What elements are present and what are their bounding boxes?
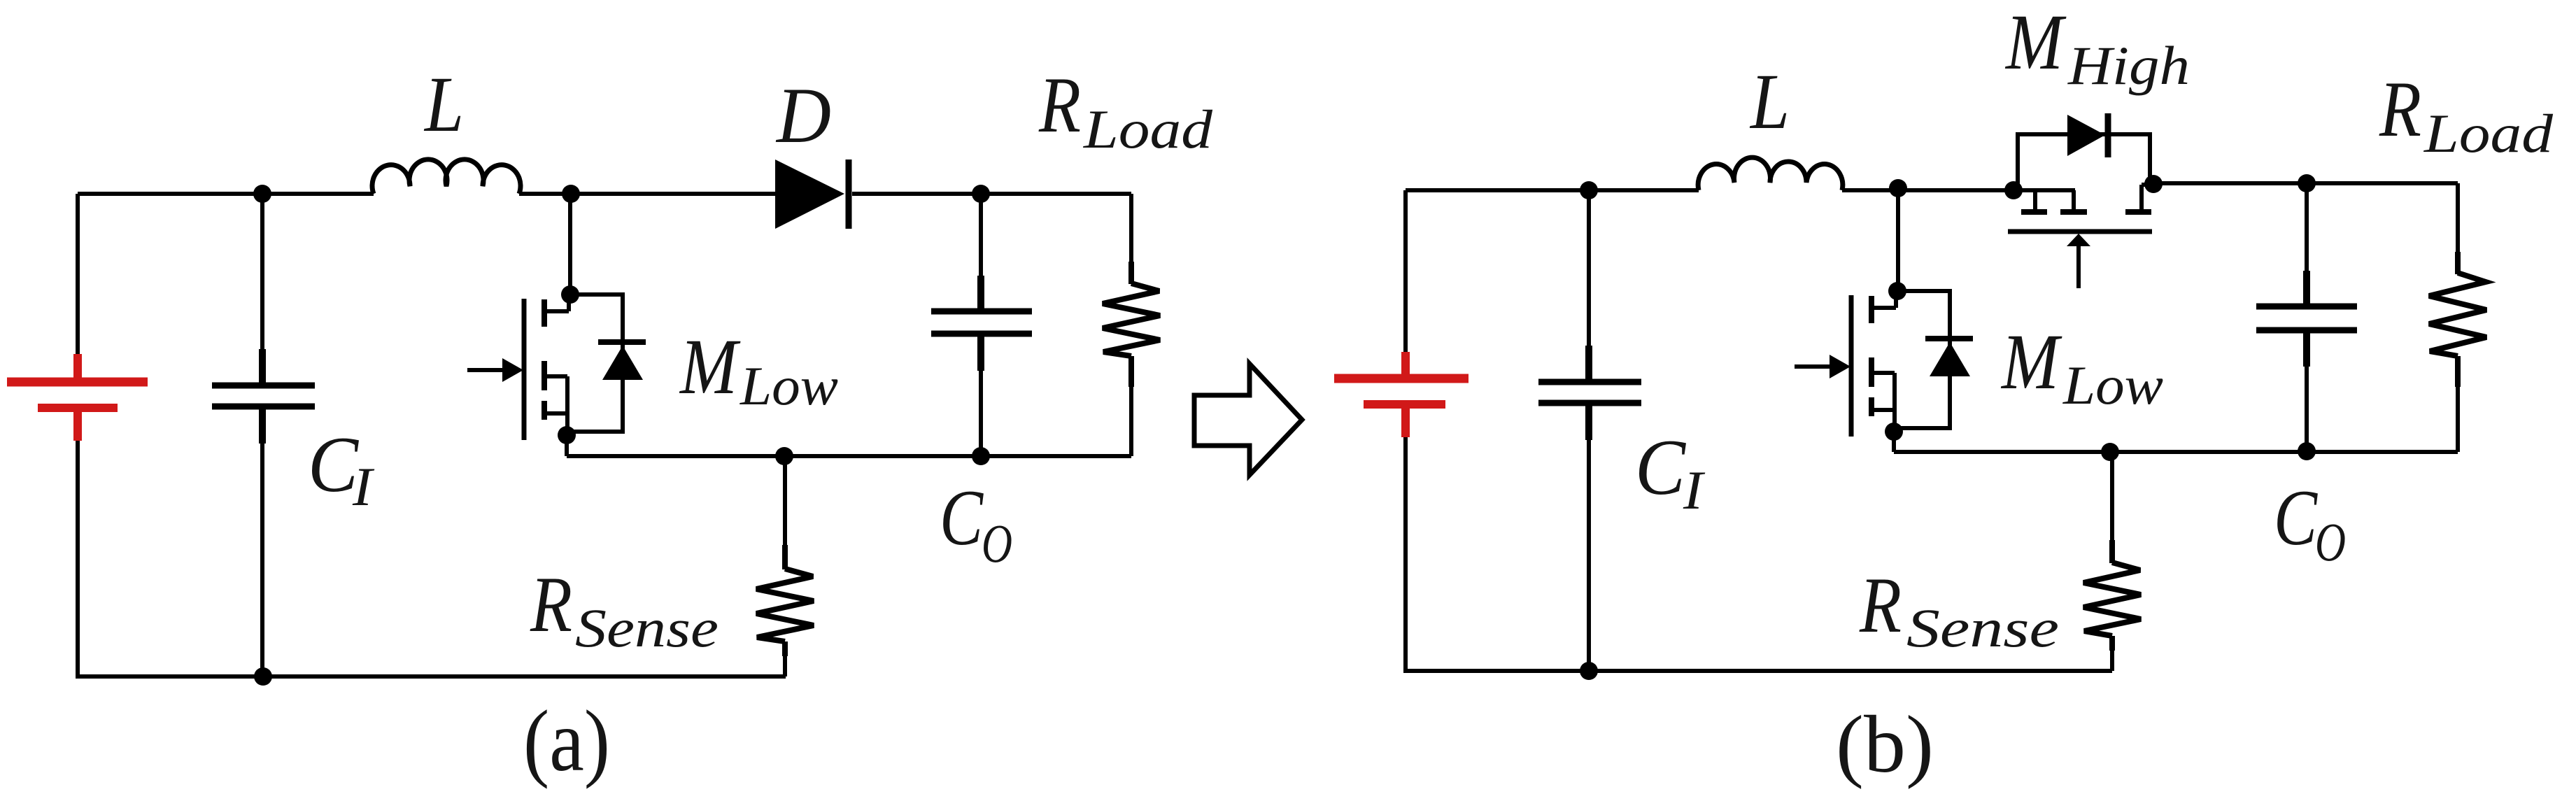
node switch junction (b)	[1889, 179, 1907, 197]
wire bottom rail (b)	[1406, 669, 2112, 673]
svg-text:Low: Low	[739, 355, 838, 416]
inductor L (b)	[1698, 157, 1843, 190]
label L (b)	[1749, 58, 1790, 146]
transistor M_High (b)	[2004, 113, 2163, 288]
svg-text:M: M	[2000, 318, 2062, 406]
transistor M_Low (a)	[467, 285, 646, 456]
wire battery to bottom (b)	[1403, 437, 1408, 673]
resistor R_Load (a)	[1103, 194, 1160, 456]
label M_Low (b)	[2000, 318, 2163, 416]
wire top rail (a)	[78, 192, 1131, 196]
arrow between circuits	[1194, 364, 1302, 475]
node C_I top (b)	[1580, 181, 1598, 199]
label C_O (b)	[2274, 474, 2346, 572]
svg-text:Sense: Sense	[575, 597, 719, 658]
svg-text:C: C	[940, 474, 984, 562]
wire left rail (a)	[76, 194, 80, 354]
node C_I bottom (b)	[1580, 662, 1598, 680]
svg-text:Sense: Sense	[1906, 597, 2059, 658]
transistor M_Low (b)	[1795, 282, 1973, 452]
battery V_in (a)	[7, 354, 148, 441]
capacitor C_I (a)	[212, 194, 315, 676]
capacitor C_I (b)	[1538, 190, 1641, 671]
node C_I bottom (a)	[254, 667, 272, 686]
svg-text:M: M	[679, 323, 741, 411]
node C_I top (a)	[253, 185, 271, 203]
svg-text:L: L	[1749, 58, 1790, 146]
label C_O (a)	[940, 474, 1012, 574]
svg-text:R: R	[1859, 562, 1902, 649]
wire drain (a)	[568, 194, 572, 292]
svg-text:D: D	[775, 72, 831, 159]
node C_O bottom (a)	[972, 447, 990, 465]
capacitor C_O (a)	[931, 194, 1032, 456]
wire bottom rail (a)	[78, 674, 786, 679]
wire top rail (b)	[1406, 183, 2458, 190]
wire left rail (b)	[1403, 190, 1408, 352]
svg-text:(a): (a)	[523, 693, 610, 790]
node C_O bottom (b)	[2298, 442, 2316, 460]
label C_I (b)	[1635, 424, 1706, 520]
svg-text:C: C	[1635, 424, 1687, 511]
wire source line (a)	[567, 454, 1131, 458]
svg-text:I: I	[352, 456, 375, 517]
label M_Low (a)	[679, 323, 838, 416]
label R_Sense (b)	[1859, 562, 2059, 658]
label D (a)	[775, 72, 831, 159]
node R_Sense top (b)	[2101, 443, 2119, 461]
svg-text:C: C	[2274, 474, 2318, 562]
svg-text:(b): (b)	[1836, 700, 1934, 790]
label (a)	[523, 693, 610, 790]
battery V_in (b)	[1334, 352, 1469, 437]
node R_Sense top (a)	[775, 447, 793, 465]
resistor R_Sense (a)	[756, 456, 814, 676]
inductor L (a)	[372, 159, 521, 194]
node switch junction (a)	[562, 185, 580, 203]
node C_O top (a)	[972, 185, 990, 203]
svg-text:M: M	[2004, 0, 2067, 86]
wire battery to bottom (a)	[76, 441, 80, 679]
svg-text:O: O	[982, 513, 1012, 574]
wire drain (b)	[1896, 188, 1900, 290]
label R_Sense (a)	[530, 561, 719, 658]
svg-text:R: R	[1038, 62, 1081, 149]
label L (a)	[423, 61, 464, 148]
label M_High (b)	[2004, 0, 2190, 96]
svg-text:C: C	[308, 421, 360, 509]
svg-text:R: R	[2379, 66, 2421, 153]
svg-text:L: L	[423, 61, 464, 148]
node C_O top (b)	[2298, 174, 2316, 192]
svg-text:Load: Load	[2423, 103, 2554, 164]
label C_I (a)	[308, 421, 375, 517]
label (b)	[1836, 700, 1934, 790]
svg-text:I: I	[1683, 460, 1706, 520]
capacitor C_O (b)	[2256, 183, 2357, 451]
diode D (a)	[775, 159, 849, 229]
svg-text:Low: Low	[2062, 355, 2163, 416]
label R_Load (a)	[1038, 62, 1213, 159]
label R_Load (b)	[2379, 66, 2554, 164]
svg-text:O: O	[2315, 511, 2346, 572]
svg-text:Load: Load	[1083, 99, 1213, 159]
wire source line (b)	[1894, 451, 2458, 452]
svg-text:High: High	[2067, 35, 2190, 96]
resistor R_Sense (b)	[2083, 452, 2141, 671]
resistor R_Load (b)	[2429, 183, 2486, 451]
svg-text:R: R	[530, 561, 572, 648]
